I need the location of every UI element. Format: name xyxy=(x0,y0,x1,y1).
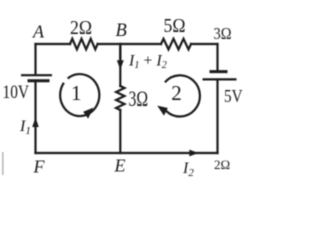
resistor R2 5ohm zigzag xyxy=(161,39,191,50)
loop 2 arrowhead xyxy=(157,106,168,116)
svg-text:I2: I2 xyxy=(182,160,194,179)
wire right side upper xyxy=(216,44,218,71)
svg-text:2Ω: 2Ω xyxy=(70,17,92,39)
svg-text:2: 2 xyxy=(171,81,182,105)
svg-text:A: A xyxy=(32,22,45,42)
arrow I1+I2 down middle xyxy=(117,46,124,70)
wire 5ohm to top-right corner xyxy=(191,43,218,45)
resistor R1 2ohm zigzag xyxy=(70,39,98,50)
resistor R3 3ohm zigzag xyxy=(116,86,124,110)
battery V1 10V long plate xyxy=(21,74,52,76)
battery V1 10V short plate xyxy=(28,79,50,82)
svg-text:F: F xyxy=(33,157,46,177)
loop 2 arc xyxy=(165,75,200,116)
svg-text:3Ω: 3Ω xyxy=(214,24,232,43)
arrow I2 right on bottom wire xyxy=(189,150,198,157)
wire middle upper xyxy=(119,44,121,86)
wire A-B segment xyxy=(98,43,121,45)
loop 1 arc xyxy=(60,74,99,116)
svg-text:10V: 10V xyxy=(3,83,30,103)
svg-text:3Ω: 3Ω xyxy=(129,86,149,111)
wire right side lower xyxy=(216,80,218,153)
svg-text:E: E xyxy=(114,156,126,176)
wire bottom xyxy=(36,152,218,154)
wire middle lower xyxy=(119,110,121,153)
wire top-left A segment xyxy=(36,43,71,45)
loop 1 arrowhead xyxy=(83,108,93,119)
svg-text:I1: I1 xyxy=(19,118,31,137)
svg-text:B: B xyxy=(116,21,127,41)
wire B to 5ohm xyxy=(120,43,161,45)
wire left side upper xyxy=(34,44,36,75)
arrow I1 up left wire xyxy=(32,118,39,128)
svg-text:5V: 5V xyxy=(224,86,243,106)
svg-text:I1 + I2: I1 + I2 xyxy=(128,53,167,71)
svg-text:5Ω: 5Ω xyxy=(164,15,186,37)
battery V2 5V short plate xyxy=(210,70,228,73)
battery V2 5V long plate xyxy=(203,78,237,80)
scan artifact left edge xyxy=(2,152,4,175)
svg-text:1: 1 xyxy=(71,81,82,105)
svg-text:2Ω: 2Ω xyxy=(214,157,230,172)
wire left side lower xyxy=(34,82,36,154)
